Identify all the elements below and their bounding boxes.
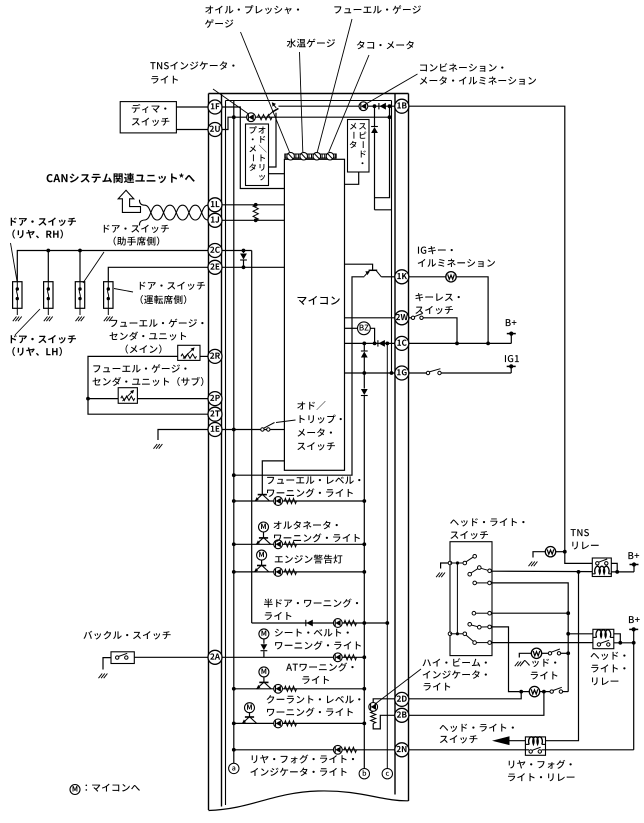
resistor high beam: [371, 712, 376, 724]
callout combination illumination: [365, 74, 418, 105]
door switch rear LH: [44, 282, 53, 322]
node TNS lamp feed: [563, 550, 567, 554]
node 1G chain: [362, 371, 366, 375]
ground TNS lamp: [529, 562, 538, 567]
diode chain 1C to 1G: [361, 343, 368, 373]
fuel level warning light row: [232, 495, 366, 506]
callout door passenger: [83, 252, 104, 283]
wire buckle to 2A: [134, 656, 208, 658]
microcomputer box (maikon): [284, 159, 344, 470]
node headlight2 right: [542, 690, 546, 694]
label coolant line2: [267, 708, 353, 717]
label CAN system units (bold): [47, 173, 195, 183]
hl switch internal bus: [456, 563, 458, 634]
label coolant line1: [267, 695, 361, 703]
label keyless line1: [415, 293, 459, 301]
wire dimmer to 2U: [176, 129, 208, 131]
label high beam line3: [424, 683, 451, 691]
alternator warning light row: [232, 538, 366, 549]
connector 1E: [208, 423, 222, 437]
wire high beam to 2B: [373, 715, 395, 729]
label fuel level warning line1: [267, 476, 360, 484]
node top wire right 1: [373, 104, 377, 108]
ground 1E: [154, 444, 163, 449]
label door switch rear LH (bold): [11, 335, 76, 356]
connector 2N: [395, 743, 409, 757]
headlight relay box: [593, 629, 614, 648]
label door switch driver: [140, 282, 205, 305]
diode seat belt: [261, 639, 268, 658]
wire 2W internal: [345, 317, 395, 319]
diode chain below 1G: [361, 373, 368, 769]
wire 1J to maikon: [222, 219, 284, 221]
label AT warning line2: [302, 676, 329, 684]
wire TNS tap down to fog relay: [546, 572, 579, 741]
wire hl relay coil left: [568, 633, 593, 635]
wire hl switch gang1 ground: [441, 563, 449, 569]
label seat belt line1: [275, 629, 349, 637]
node hl B+: [632, 641, 636, 645]
odo/trip box text col2: [249, 126, 257, 171]
node 2C diode: [242, 249, 246, 253]
wire keyless to B+ wire: [423, 318, 457, 344]
connector 1K: [395, 270, 409, 284]
wire gang4 right: [491, 612, 568, 614]
node bus 1E: [232, 428, 236, 432]
label fuel gauge: [334, 5, 421, 14]
wire 2R to main sender: [200, 355, 208, 357]
connector 2U: [208, 123, 222, 137]
node top wire right 2: [388, 104, 392, 108]
node TNS relay tap: [577, 570, 581, 574]
B+ terminal headlight: [629, 627, 638, 642]
ground hl switch: [436, 573, 445, 578]
label IG key line1: [418, 246, 453, 254]
B+ terminal TNS: [630, 562, 639, 572]
connector 2R: [208, 349, 222, 363]
hl switch gang5: [468, 623, 492, 630]
connector 2B: [395, 708, 409, 722]
dimmer switch label: [132, 104, 170, 126]
node 1C diode chain: [362, 342, 366, 346]
high beam indicator bulb: [369, 703, 378, 712]
headlight1 switch: [548, 649, 560, 655]
connector 1G: [395, 366, 409, 380]
label alternator warning line1: [274, 521, 338, 529]
label high beam line2: [423, 670, 487, 678]
headlight relay contact: [597, 640, 610, 646]
label oil pressure gauge line2: [205, 19, 233, 28]
node TNS relay loop: [615, 570, 619, 574]
buzzer BZ: [358, 322, 371, 335]
legend M mark: [70, 785, 80, 795]
node headlight1 join: [566, 651, 570, 655]
callout door RH: [11, 243, 18, 281]
node 1C BZ drop: [373, 342, 377, 346]
wire headlight1 ground: [519, 653, 531, 657]
headlight relay coil: [593, 630, 614, 638]
wire 2W to keyless switch: [409, 317, 412, 319]
odo/trip meter switch: [261, 423, 275, 432]
inner meter box right wall: [391, 101, 393, 374]
headlight switch box: [450, 542, 492, 656]
TNS indicator light bulb: [247, 113, 256, 122]
label TNS relay line2: [572, 542, 598, 550]
rear fog relay coil: [526, 737, 546, 745]
wire headlight1 to switch: [542, 652, 549, 654]
callout TNS indicator: [213, 89, 249, 114]
hl switch gang3: [473, 581, 491, 585]
label high beam line1: [423, 658, 487, 666]
wire 1G external: [409, 372, 429, 374]
headlight 1 bulb: [531, 648, 541, 658]
label TNS indicator line2: [151, 76, 178, 84]
wire TNS relay contact loop: [611, 563, 617, 572]
gauge lamp fuel: [312, 152, 323, 160]
node hl coil vert: [566, 632, 570, 636]
node 1C right: [385, 342, 389, 346]
label fuel sender sub: [93, 364, 204, 386]
wire 1B feed: [409, 106, 593, 563]
callout tacho: [329, 55, 369, 152]
wire hl relay contact right: [614, 642, 634, 644]
wire gang6 to headlight relay: [491, 642, 593, 644]
label water temp gauge: [287, 39, 335, 48]
node 2E diode: [242, 265, 246, 269]
IG1 terminal: [507, 364, 516, 373]
M mark alternator: [259, 522, 269, 532]
node 1J-resistor: [254, 218, 258, 222]
gauge lamp oil pressure: [285, 152, 296, 160]
door switch rear RH: [13, 282, 22, 322]
wire door sw2 drop: [47, 251, 49, 282]
speedometer text col1: [359, 123, 366, 164]
connector 2A: [208, 650, 222, 664]
label rear fog relay line2: [508, 773, 574, 781]
wire TNS row: [234, 116, 390, 118]
label headlight switch line2: [450, 531, 488, 539]
wire eng M to base: [261, 560, 263, 566]
wire TNS lamp feed: [556, 551, 565, 553]
wire 2E internal: [222, 266, 284, 268]
wire sub sender: [88, 398, 118, 400]
wire 1K emitter loop: [234, 277, 364, 475]
door switch driver: [104, 282, 113, 322]
node keyless join: [455, 342, 459, 346]
rear fog light indicator row: [232, 745, 395, 754]
M mark AT: [259, 667, 269, 677]
label headlight relay: [591, 652, 626, 686]
inner meter box top edge: [226, 100, 392, 102]
wire sub sender to 2P: [137, 398, 208, 400]
rear fog relay box: [525, 737, 545, 755]
wire 2C vertical to half-door row: [251, 251, 253, 624]
label door switch passenger: [104, 225, 169, 246]
node door sw2 branch: [46, 249, 50, 253]
label B+ 1C: [506, 319, 517, 326]
hl switch gang1: [448, 555, 476, 565]
legend M text: [85, 784, 139, 792]
wire IG key lamp to B+ wire: [456, 277, 490, 346]
wire fog coil to arrow: [508, 740, 525, 742]
wire 1C external: [409, 342, 512, 344]
wire TNS transistor collector to top wire: [269, 113, 277, 167]
node TNS wire right: [388, 115, 392, 119]
unit bottom wavy break line: [209, 791, 409, 811]
vertical line to (c): [386, 343, 388, 768]
node gang4 join: [566, 611, 570, 615]
inner meter box left wall: [225, 101, 227, 806]
label fuel sender main: [110, 319, 204, 354]
transistor TNS (Q1): [267, 102, 279, 117]
B+ terminal 1C: [507, 332, 516, 344]
speedometer text col2: [350, 123, 357, 149]
hl switch gang6: [448, 632, 491, 644]
wire odo box to maikon: [269, 173, 285, 175]
unit right wall outer line: [408, 94, 410, 802]
buckle switch box: [111, 652, 134, 664]
label half door line2: [265, 612, 292, 620]
label seat belt line2: [275, 641, 361, 650]
node bus-TNS junction: [232, 115, 236, 119]
label keyless line2: [415, 306, 453, 314]
label to headlight switch line1: [440, 724, 514, 732]
arrow to headlight switch: [492, 736, 510, 745]
TNS relay coil: [592, 566, 612, 574]
connector 1F: [208, 100, 222, 114]
wire 2D to high beam indicator: [373, 699, 395, 703]
ground headlight1: [515, 662, 524, 667]
callout high beam: [375, 669, 422, 705]
node headlight2 left: [519, 690, 523, 694]
wire 1F to odo loop corner: [222, 107, 284, 189]
node c: [382, 769, 392, 779]
label tacho meter: [357, 41, 414, 49]
wire B+ down to fog contact: [633, 643, 635, 750]
wire odo switch to maikon: [270, 429, 285, 431]
resistor between 1L and 1J: [253, 205, 258, 221]
label combination meter illumination line1: [420, 63, 503, 72]
label rear fog line2: [250, 768, 346, 776]
headlight 2 bulb: [529, 686, 539, 696]
wire 2N to fog contact: [409, 749, 530, 751]
label oil pressure gauge line1: [205, 5, 299, 14]
wire alt M to base: [263, 532, 265, 538]
connector 1C: [395, 336, 409, 350]
connector 2W: [395, 311, 409, 325]
callout water temp: [300, 52, 303, 152]
label fuel level warning line2: [267, 488, 353, 497]
headlight2 switch: [550, 687, 563, 693]
callout door driver: [114, 289, 133, 293]
wire speedometer tab to maikon: [345, 172, 359, 184]
gauge lamp tacho: [325, 152, 336, 160]
wire coolant M to base: [249, 713, 251, 718]
wire hl relay coil loop: [614, 634, 621, 643]
label odo/trip meter switch: [297, 401, 342, 450]
combination meter unit outer box top edge: [209, 93, 409, 95]
wire 1E internal: [222, 429, 268, 431]
TNS relay contact: [596, 559, 608, 565]
label door switch rear RH (bold): [11, 217, 76, 238]
label IG key line2: [418, 259, 495, 267]
half door warning light row: [252, 619, 389, 628]
TNS illumination bulb: [545, 547, 555, 557]
diode speedo drop: [371, 106, 378, 210]
wire 2U riser to TNS lamp wire: [222, 117, 234, 129]
label maikon: [298, 296, 340, 305]
buckle switch contact: [116, 653, 129, 659]
label buckle switch: [83, 631, 170, 640]
node b: [359, 769, 369, 779]
label TNS relay line1: [571, 529, 589, 536]
wire 1K collector: [381, 276, 395, 278]
fuel sender main resistor: [181, 347, 197, 358]
wire AT M to base: [263, 677, 265, 683]
label TNS indicator line1: [150, 61, 234, 69]
wire headlight2 to switch: [540, 691, 551, 693]
dimmer switch box: [120, 102, 176, 133]
label headlight switch line1: [450, 518, 524, 526]
wire top illumination line: [279, 105, 395, 107]
wire right inner drop (389.5): [375, 106, 390, 198]
odo/trip meter box: [246, 124, 269, 186]
wire dimmer to 1F: [176, 106, 208, 108]
wire 1L to maikon: [222, 204, 284, 206]
speedometer box: [348, 120, 370, 173]
wire 1C internal: [345, 342, 395, 344]
node a: [229, 763, 239, 773]
coolant level warning light row: [232, 717, 366, 728]
label B+ TNS: [628, 552, 639, 559]
node 1L-resistor: [254, 203, 258, 207]
diode top illumination: [379, 103, 386, 110]
wire gang2 to TNS relay coil: [491, 570, 592, 572]
engine warning light row: [232, 566, 366, 577]
fuel sender sub box: [118, 388, 137, 404]
wire 2C to door switches: [17, 251, 208, 282]
node 1G inner wall: [390, 371, 394, 375]
label engine warning light: [275, 555, 343, 564]
ground buckle: [99, 674, 108, 679]
internal bus vertical (from top edge down): [233, 101, 235, 764]
transistor 1K (Q2): [364, 270, 381, 277]
hl switch gang4: [472, 611, 491, 615]
wire door sw3 drop: [79, 251, 81, 282]
connector 1L: [208, 198, 222, 212]
label combination meter illumination line2: [420, 76, 536, 85]
IG key illumination bulb: [446, 272, 456, 282]
wire gang3 right: [491, 583, 568, 692]
connector 2E: [208, 260, 222, 274]
seat belt warning light row: [222, 653, 366, 662]
wire main sender loop: [88, 356, 208, 414]
M mark coolant: [245, 703, 255, 713]
door switch passenger: [75, 282, 84, 322]
wire gang5 down to headlight2: [491, 627, 519, 692]
unit left wall inner line: [221, 94, 223, 807]
callout door LH: [15, 309, 40, 335]
wire 1E to ground: [158, 430, 208, 441]
connector 1J: [208, 213, 222, 227]
wire BZ left: [345, 327, 358, 329]
callout fuel gauge: [317, 19, 352, 152]
wire row1 base to maikon: [262, 461, 284, 495]
node door sw3 branch: [78, 249, 82, 253]
AT warning light row: [232, 682, 366, 693]
label half door line1: [264, 599, 358, 608]
connector 1B: [395, 99, 409, 113]
fuel sender main box: [178, 345, 200, 360]
wire buckle to ground: [103, 658, 111, 670]
combination meter illumination bulb: [359, 102, 368, 111]
wire 1K to IG key lamp: [409, 276, 446, 278]
wire fog contact to B+: [542, 749, 634, 751]
wire 2D external: [409, 692, 522, 699]
wire TNS lamp ground: [533, 552, 546, 558]
wire 2B external: [409, 692, 544, 716]
unit right wall inner line: [394, 94, 396, 795]
resistor TNS row: [258, 115, 273, 120]
node sub sender junction: [86, 397, 90, 401]
M mark engine: [257, 550, 267, 560]
TNS relay box: [592, 558, 611, 577]
connector 2C: [208, 244, 222, 258]
label B+ headlight: [629, 616, 640, 623]
keyless switch: [411, 314, 423, 320]
wire headlight2 left: [519, 691, 529, 693]
odo/trip box text col1: [258, 127, 266, 181]
label IG1: [505, 355, 519, 362]
wire headlight1 to bus: [561, 652, 568, 654]
callout odo switch: [276, 420, 296, 423]
gauge illumination holder bar: [285, 154, 336, 158]
wire 2C internal: [222, 250, 252, 252]
label rear fog line1: [252, 755, 354, 764]
label to headlight switch line2: [440, 735, 478, 743]
wire 2E to driver door switch: [108, 267, 208, 281]
wire headlight2 bus corner: [563, 691, 569, 693]
label headlights: [521, 659, 557, 680]
connector 2P: [208, 392, 222, 406]
twisted pair wires to 1L/1J: [139, 200, 208, 226]
fuel sender sub resistor: [121, 390, 135, 401]
label rear fog relay line1: [509, 760, 572, 769]
unit left wall outer line: [208, 94, 210, 811]
label alternator warning line2: [274, 533, 360, 542]
label AT warning line1: [286, 663, 354, 672]
diode 2C-2E: [240, 251, 247, 268]
wire diode drop stub: [375, 209, 392, 211]
IG1 switch: [426, 369, 441, 375]
gauge lamp water temp: [298, 152, 309, 160]
wire 1G internal: [345, 372, 395, 374]
M mark seat belt: [259, 629, 269, 639]
hl switch gang2: [468, 566, 492, 576]
rear fog relay contact: [529, 747, 542, 753]
wire IG1 switch to terminal: [441, 372, 511, 374]
arrow to CAN units: [118, 190, 140, 212]
diode 1C wire: [378, 340, 385, 347]
callout oil pressure: [241, 32, 290, 152]
wire 1K base from maikon: [345, 264, 373, 270]
connector 2D: [395, 692, 409, 706]
node bus-emitter loop: [232, 473, 236, 477]
connector 2T: [208, 407, 222, 421]
wire BZ right to 1C wire: [370, 328, 374, 343]
node hl relay loop: [618, 641, 622, 645]
wire TNS relay right to B+: [611, 571, 634, 573]
